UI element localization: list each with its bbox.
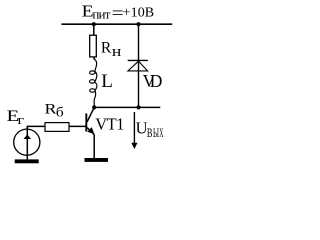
svg-text:б: б (56, 106, 64, 121)
svg-text:VD: VD (143, 71, 163, 91)
svg-text:VT1: VT1 (95, 114, 124, 133)
svg-text:L: L (101, 71, 113, 92)
svg-text:н: н (112, 44, 122, 60)
svg-text:R: R (45, 101, 57, 117)
svg-text:U: U (136, 119, 148, 138)
svg-text:Х: Х (159, 126, 163, 140)
svg-text:Ы: Ы (153, 126, 159, 140)
svg-text:В: В (147, 126, 153, 140)
svg-text:г: г (18, 112, 25, 127)
svg-text:пит: пит (92, 7, 110, 22)
svg-text:R: R (101, 40, 112, 57)
svg-text:+10В: +10В (123, 5, 155, 20)
